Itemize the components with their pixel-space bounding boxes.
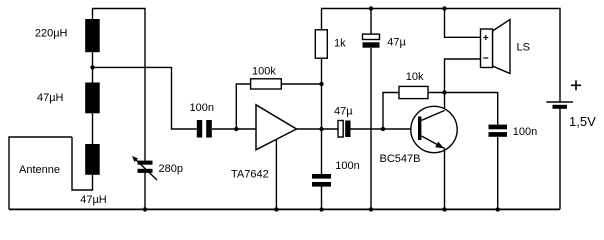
wire output bbox=[297, 128, 339, 130]
wire L1 to L2 bbox=[92, 52, 94, 82]
wire emitter to rail bbox=[444, 149, 446, 210]
svg-text:100n: 100n bbox=[190, 102, 214, 114]
wire 10k to collector node bbox=[428, 92, 445, 94]
node C2 ground bbox=[319, 207, 323, 211]
wire C1 to TA7642 input bbox=[212, 128, 257, 130]
node 47µ decoupling rail bbox=[369, 6, 373, 10]
wire feedback left bbox=[236, 84, 250, 129]
transistor Q1 BC547B bbox=[411, 106, 457, 152]
inductor L2 47µH bbox=[85, 83, 100, 114]
node output bbox=[319, 127, 323, 131]
svg-text:TA7642: TA7642 bbox=[231, 168, 269, 180]
svg-text:280p: 280p bbox=[159, 163, 183, 175]
speaker minus sign bbox=[483, 57, 488, 59]
svg-text:1,5V: 1,5V bbox=[569, 114, 596, 129]
svg-text:1k: 1k bbox=[334, 38, 346, 50]
wire base to 10k bbox=[383, 93, 399, 130]
node 47µ ground bbox=[369, 207, 373, 211]
wire feedback right bbox=[281, 83, 321, 85]
capacitor C1 100n input bbox=[197, 120, 202, 138]
svg-text:100n: 100n bbox=[513, 126, 537, 138]
wire 47µ decoupling to rail bbox=[370, 48, 372, 210]
wire tap to C1 bbox=[93, 67, 197, 129]
wire coil top rail to 280p bbox=[93, 9, 146, 161]
resistor R1 100k bbox=[251, 79, 282, 89]
wire C3 to base bbox=[351, 128, 419, 130]
node emitter ground bbox=[442, 207, 446, 211]
inductor L1 220µH bbox=[85, 19, 100, 52]
op-amp U1 TA7642 bbox=[256, 105, 297, 150]
node feedback bbox=[319, 82, 323, 86]
svg-text:220µH: 220µH bbox=[35, 28, 68, 40]
wire L3 to antenna box bbox=[72, 137, 93, 190]
svg-text:BC547B: BC547B bbox=[380, 153, 421, 165]
capacitor C2 100n output bbox=[312, 174, 331, 179]
node TA7642 ground bbox=[274, 207, 278, 211]
node 280p ground bbox=[143, 207, 147, 211]
node collector bbox=[442, 90, 446, 94]
resistor R2 1k bbox=[315, 30, 327, 58]
svg-text:LS: LS bbox=[517, 42, 530, 54]
wire L2 to L3 bbox=[92, 113, 94, 144]
wire 280p to rail bbox=[144, 173, 146, 210]
svg-text:47µH: 47µH bbox=[37, 92, 64, 104]
wire speaker plus bbox=[445, 9, 481, 38]
antenna box bbox=[9, 137, 72, 209]
wire 47µ decoupling top bbox=[370, 9, 372, 35]
svg-text:47µ: 47µ bbox=[387, 37, 406, 49]
svg-text:47µ: 47µ bbox=[334, 105, 353, 117]
capacitor C5 100n right bbox=[489, 125, 508, 130]
node base bbox=[381, 127, 385, 131]
wire speaker minus bbox=[445, 59, 481, 93]
speaker LS cone bbox=[493, 20, 511, 74]
node C5 ground bbox=[496, 207, 500, 211]
top rail bbox=[322, 9, 561, 102]
node coil tap bbox=[90, 65, 94, 69]
capacitor C4 47µ decoupling bbox=[363, 34, 380, 39]
capacitor C3 47µ coupling bbox=[338, 121, 343, 138]
battery BT1 long plate bbox=[546, 101, 573, 103]
wire C5 to rail bbox=[497, 137, 499, 210]
battery plus sign bbox=[571, 84, 581, 86]
speaker LS body bbox=[481, 29, 493, 68]
node speaker plus rail bbox=[442, 6, 446, 10]
svg-text:10k: 10k bbox=[406, 71, 424, 83]
wire collector node to C5 bbox=[445, 93, 498, 125]
node input bbox=[234, 127, 238, 131]
resistor R3 10k bbox=[399, 86, 428, 98]
wire C2 to rail bbox=[321, 187, 323, 210]
svg-text:Antenne: Antenne bbox=[19, 164, 60, 176]
ground rail bbox=[9, 208, 560, 210]
wire 1k chain vertical bbox=[321, 58, 323, 174]
280p trimmer arrow bbox=[134, 158, 157, 180]
svg-text:100n: 100n bbox=[335, 160, 359, 172]
battery BT1 short plate bbox=[553, 105, 568, 109]
svg-text:100k: 100k bbox=[252, 65, 276, 77]
speaker plus sign bbox=[483, 37, 488, 39]
wire collector bbox=[444, 93, 446, 111]
TA7642 ground pin bbox=[275, 139, 277, 209]
wire battery to rail bbox=[559, 109, 561, 210]
svg-text:47µH: 47µH bbox=[80, 194, 107, 206]
capacitor 280p bars bbox=[138, 161, 153, 165]
inductor L3 47µH bbox=[85, 144, 100, 175]
